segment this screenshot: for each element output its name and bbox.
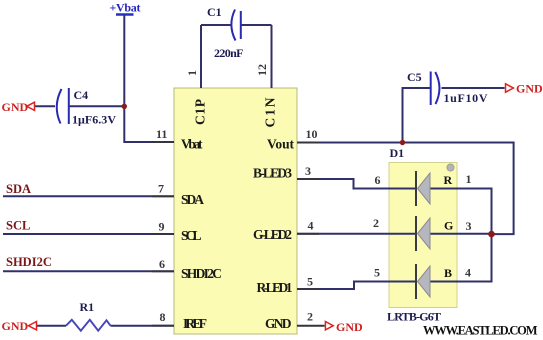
svg-text:5: 5 <box>374 266 380 280</box>
svg-text:WWW.EASTLED.COM: WWW.EASTLED.COM <box>423 324 538 338</box>
svg-text:C5: C5 <box>407 70 422 84</box>
svg-text:C1N: C1N <box>263 97 278 127</box>
svg-text:SHDI2C: SHDI2C <box>6 255 52 269</box>
svg-text:1uF10V: 1uF10V <box>444 91 488 105</box>
svg-text:4: 4 <box>465 266 471 280</box>
svg-text:SDA: SDA <box>6 182 31 196</box>
svg-text:Vout: Vout <box>267 137 295 152</box>
svg-text:R-LED1: R-LED1 <box>257 280 293 295</box>
svg-text:3: 3 <box>305 164 311 178</box>
svg-text:1: 1 <box>466 172 472 186</box>
svg-text:1: 1 <box>185 70 199 76</box>
svg-text:IREF: IREF <box>183 316 207 331</box>
svg-text:B: B <box>444 266 452 280</box>
svg-text:+Vbat: +Vbat <box>110 1 141 15</box>
svg-text:Vbat: Vbat <box>181 137 203 152</box>
svg-text:GND: GND <box>2 319 29 333</box>
svg-text:SHDI2C: SHDI2C <box>181 266 222 281</box>
svg-text:GND: GND <box>265 316 292 331</box>
svg-text:GND: GND <box>336 320 363 334</box>
svg-text:3: 3 <box>466 219 472 233</box>
svg-text:7: 7 <box>158 182 164 196</box>
svg-text:G: G <box>444 219 453 233</box>
svg-text:1μF6.3V: 1μF6.3V <box>72 113 116 127</box>
svg-text:SCL: SCL <box>6 219 30 233</box>
svg-text:G-LED2: G-LED2 <box>253 227 292 242</box>
svg-text:D1: D1 <box>390 146 405 160</box>
svg-text:LRTB-G6T: LRTB-G6T <box>387 310 441 324</box>
svg-text:6: 6 <box>159 257 165 271</box>
svg-text:GND: GND <box>2 100 29 114</box>
svg-text:R1: R1 <box>80 300 95 314</box>
svg-text:SCL: SCL <box>181 228 202 243</box>
svg-text:12: 12 <box>255 64 269 76</box>
svg-text:2: 2 <box>373 216 379 230</box>
svg-text:R: R <box>444 173 453 187</box>
svg-text:C1: C1 <box>207 5 222 19</box>
svg-text:6: 6 <box>375 173 381 187</box>
svg-text:10: 10 <box>306 127 318 141</box>
svg-text:C4: C4 <box>74 88 89 102</box>
svg-text:9: 9 <box>159 220 165 234</box>
svg-text:SDA: SDA <box>181 192 204 207</box>
svg-text:220nF: 220nF <box>214 46 244 60</box>
svg-text:5: 5 <box>307 275 313 289</box>
svg-text:C1P: C1P <box>193 99 208 125</box>
svg-text:GND: GND <box>516 82 543 96</box>
svg-text:4: 4 <box>308 219 314 233</box>
svg-text:8: 8 <box>160 310 166 324</box>
svg-text:11: 11 <box>156 127 167 141</box>
svg-text:2: 2 <box>307 310 313 324</box>
svg-text:B-LED3: B-LED3 <box>253 166 292 181</box>
